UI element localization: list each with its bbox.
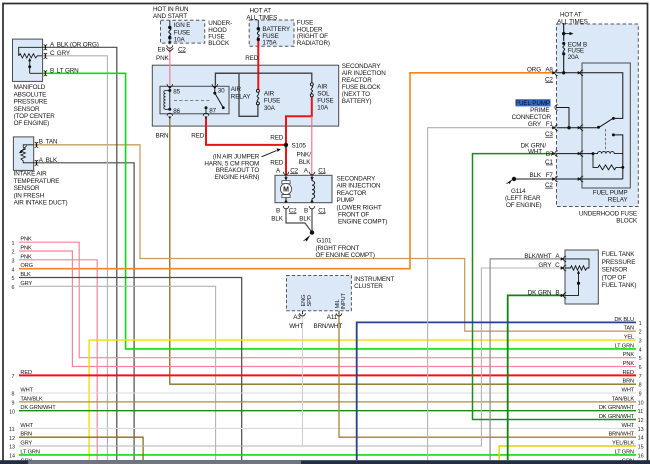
map sensor internals	[19, 47, 43, 56]
svg-text:RED: RED	[20, 370, 32, 376]
underhood fuse block right (dashed, fuel pump relay)	[557, 24, 639, 207]
svg-text:16: 16	[638, 453, 644, 459]
connector arc relay pin 30	[212, 84, 218, 87]
svg-text:12: 12	[638, 418, 644, 424]
svg-text:LT GRN: LT GRN	[20, 449, 39, 455]
wire RED row7	[19, 374, 636, 376]
svg-text:BRN/WHT: BRN/WHT	[609, 432, 635, 438]
svg-text:14: 14	[9, 453, 15, 459]
svg-text:5: 5	[12, 276, 15, 282]
svg-text:RED: RED	[191, 132, 205, 139]
relay mechanical link dashed	[174, 99, 210, 101]
svg-text:PNK: PNK	[20, 237, 32, 243]
pump motor symbol	[285, 175, 287, 181]
connector arcs ftp pins	[563, 256, 566, 298]
svg-text:RED: RED	[245, 55, 259, 62]
svg-text:WHT: WHT	[622, 423, 635, 429]
pump solenoid coil symbol	[311, 175, 313, 181]
svg-text:M: M	[283, 186, 289, 193]
svg-text:B: B	[276, 208, 280, 215]
svg-text:1: 1	[639, 321, 642, 327]
svg-text:YEL: YEL	[624, 335, 634, 341]
svg-text:14: 14	[638, 436, 644, 442]
wire BLK pump solenoid B to G101	[311, 209, 313, 232]
node relay pin 87	[205, 106, 208, 109]
svg-text:LT GRN: LT GRN	[615, 343, 634, 349]
connector arc relay pin 87	[203, 113, 209, 116]
secondary air injection reactor pump box	[275, 175, 332, 202]
svg-text:ALL TIMES: ALL TIMES	[557, 18, 588, 25]
svg-text:GRY: GRY	[538, 262, 552, 269]
svg-text:BRN: BRN	[20, 432, 32, 438]
svg-text:3: 3	[12, 258, 15, 264]
svg-text:SOL: SOL	[317, 91, 330, 98]
wire BRN/WHT cluster A11 to row 14	[339, 314, 636, 437]
svg-text:30A: 30A	[264, 105, 276, 112]
connector arc relay pin 85	[167, 84, 173, 87]
svg-text:MANIFOLD: MANIFOLD	[14, 84, 46, 91]
connector arrowheads fuel block pins	[552, 71, 581, 181]
svg-text:(LOWER RIGHT: (LOWER RIGHT	[337, 204, 382, 211]
svg-text:GRY: GRY	[20, 441, 32, 447]
svg-text:ENGINE HARN): ENGINE HARN)	[215, 174, 259, 181]
svg-text:10: 10	[638, 400, 644, 406]
svg-text:BLOCK: BLOCK	[208, 40, 230, 47]
fuse ECM B 20A	[562, 42, 565, 45]
svg-text:ABSOLUTE: ABSOLUTE	[14, 91, 47, 98]
svg-text:7: 7	[12, 374, 15, 380]
svg-text:(TOP CENTER: (TOP CENTER	[14, 113, 56, 120]
svg-text:SECONDARY: SECONDARY	[342, 63, 382, 70]
svg-text:C: C	[555, 262, 560, 269]
svg-text:B: B	[50, 67, 54, 74]
fuel tank pressure sensor box	[565, 250, 598, 304]
svg-text:CLUSTER: CLUSTER	[354, 283, 383, 290]
wire LT GRN row16	[19, 454, 636, 456]
svg-text:FUEL TANK: FUEL TANK	[602, 251, 636, 258]
svg-text:RADIATOR): RADIATOR)	[297, 40, 330, 47]
svg-text:12: 12	[9, 436, 15, 442]
wire YEL/BLK row15 right	[499, 446, 636, 460]
wire ORG row4 left to fuel pump relay A8	[19, 73, 554, 269]
svg-text:AIR INJECTION: AIR INJECTION	[342, 70, 386, 77]
node relay pin 85	[168, 89, 171, 92]
svg-text:TAN: TAN	[623, 326, 634, 332]
relay switch arm 30 to 87	[215, 93, 223, 107]
svg-text:86: 86	[173, 108, 180, 115]
svg-text:OF ENGINE COMPT): OF ENGINE COMPT)	[316, 252, 375, 259]
svg-text:REACTOR: REACTOR	[337, 190, 367, 197]
fuse AIR SOL 10A	[310, 83, 313, 97]
svg-text:HOT AT: HOT AT	[250, 7, 272, 14]
connector arcs fuel block left edge	[555, 70, 583, 182]
svg-text:FUEL TANK): FUEL TANK)	[602, 282, 637, 289]
svg-text:INPUT: INPUT	[341, 293, 347, 310]
wire PNK row1 left to row 5	[19, 242, 636, 358]
svg-text:5: 5	[639, 356, 642, 362]
svg-text:BLK (OR ORG): BLK (OR ORG)	[57, 41, 99, 48]
svg-text:B: B	[304, 208, 308, 215]
wire RED air sol fuse jog down-left exits box	[286, 97, 312, 145]
svg-text:FUSE: FUSE	[174, 29, 190, 36]
svg-text:8: 8	[12, 392, 15, 398]
svg-text:9: 9	[12, 401, 15, 407]
node S105	[284, 143, 288, 147]
instrument cluster pin stubs	[302, 311, 304, 314]
svg-text:13: 13	[9, 445, 15, 451]
wire PNK row3 left down	[19, 260, 97, 460]
svg-text:RED: RED	[270, 160, 284, 167]
air relay inner box	[160, 86, 229, 114]
wire BLK pump motor B to G101	[286, 209, 312, 232]
svg-text:TAN/BLK: TAN/BLK	[20, 396, 43, 402]
svg-text:E8: E8	[158, 46, 166, 53]
svg-text:DK GRN/WHT: DK GRN/WHT	[20, 405, 56, 411]
svg-text:ORG: ORG	[527, 66, 541, 73]
relay coil spring	[164, 91, 170, 110]
svg-text:PNK: PNK	[20, 246, 32, 252]
svg-text:PRIME: PRIME	[530, 107, 549, 114]
F1 line into relay	[557, 127, 599, 129]
svg-text:OF ENGINE): OF ENGINE)	[14, 120, 50, 127]
svg-text:A8: A8	[545, 66, 553, 73]
svg-text:G101: G101	[317, 238, 333, 245]
feed line A8 into relay	[557, 73, 623, 119]
ground G114	[512, 177, 516, 181]
wire BLK air fuse out jog to relay 30 and sol fuse	[215, 73, 258, 116]
fuse AIR 30A	[256, 89, 259, 105]
svg-text:A3: A3	[293, 314, 301, 321]
fuel pump relay inner box	[582, 63, 630, 188]
svg-text:30: 30	[218, 88, 225, 95]
svg-text:BLK/WHT: BLK/WHT	[524, 253, 551, 260]
svg-text:BLK: BLK	[299, 159, 311, 166]
svg-text:WHT: WHT	[20, 423, 33, 429]
svg-text:87: 87	[209, 108, 216, 115]
wire BRN relay 86 down to row 8	[170, 118, 636, 385]
svg-text:175A: 175A	[262, 40, 277, 47]
svg-text:WHT: WHT	[528, 149, 542, 156]
svg-text:BRN: BRN	[622, 379, 634, 385]
wire PNK ign fuse to relay 85	[169, 48, 171, 86]
svg-text:6: 6	[12, 285, 15, 291]
svg-text:GRY: GRY	[528, 121, 542, 128]
svg-text:G114: G114	[511, 188, 526, 195]
svg-text:11: 11	[638, 409, 644, 415]
svg-text:PNK/: PNK/	[297, 152, 312, 159]
svg-text:8: 8	[639, 383, 642, 389]
svg-text:ALL TIMES: ALL TIMES	[246, 14, 277, 21]
wire ECM B fuse feed from hot	[563, 24, 565, 41]
svg-text:PNK: PNK	[623, 361, 635, 367]
prime connector stub	[557, 108, 570, 128]
svg-text:2: 2	[639, 330, 642, 336]
coil upper branch inductor	[593, 152, 623, 154]
svg-text:CONNECTOR: CONNECTOR	[512, 114, 552, 121]
svg-text:(IN FRESH: (IN FRESH	[14, 192, 45, 199]
svg-text:(LEFT REAR: (LEFT REAR	[505, 195, 541, 202]
wire BRN row12 left down	[19, 437, 143, 460]
svg-text:PNK: PNK	[20, 254, 32, 260]
svg-text:SENSOR: SENSOR	[14, 185, 40, 192]
relay mech link dashed	[605, 129, 607, 152]
svg-text:BLK: BLK	[529, 172, 541, 179]
node splice on ECM B feed with arrow to other circuits	[562, 32, 565, 35]
svg-text:13: 13	[638, 427, 644, 433]
svg-text:AIR: AIR	[264, 91, 275, 98]
svg-text:(TOP OF: (TOP OF	[602, 274, 627, 281]
svg-text:INSTRUMENT: INSTRUMENT	[354, 276, 394, 283]
wire BLK row5 left down	[19, 278, 242, 461]
svg-text:RED: RED	[270, 134, 284, 141]
wire YEL row3	[89, 340, 636, 460]
svg-text:RELAY: RELAY	[608, 196, 629, 203]
wire BLK (OR ORG) map A down	[43, 47, 117, 460]
svg-text:BLK: BLK	[299, 215, 311, 222]
svg-text:A11: A11	[327, 314, 338, 321]
fuse IGN E 10A	[169, 20, 171, 27]
wire DK GRN/WHT fuel pump relay B7 to row12	[473, 154, 637, 420]
svg-text:RED: RED	[622, 370, 634, 376]
svg-text:TEMPERATURE: TEMPERATURE	[14, 178, 60, 185]
svg-text:(NEXT TO: (NEXT TO	[342, 91, 370, 98]
svg-text:1: 1	[12, 241, 15, 247]
svg-text:DK GRN/WHT: DK GRN/WHT	[599, 405, 635, 411]
svg-text:ORG: ORG	[20, 263, 33, 269]
wire TAN iat B to row 2	[34, 145, 636, 331]
svg-text:BLK: BLK	[46, 157, 58, 164]
svg-text:10A: 10A	[174, 37, 186, 44]
svg-text:ENGINE COMPT): ENGINE COMPT)	[338, 219, 387, 226]
svg-text:IGN E: IGN E	[174, 22, 191, 29]
svg-text:10A: 10A	[317, 105, 329, 112]
svg-text:F1: F1	[546, 121, 554, 128]
svg-text:4: 4	[639, 347, 642, 353]
svg-text:20A: 20A	[568, 54, 580, 61]
wire WHT cluster A3 down	[302, 314, 304, 446]
svg-text:ENG: ENG	[301, 295, 307, 307]
svg-text:LT GRN: LT GRN	[57, 67, 79, 74]
svg-text:BLK: BLK	[20, 272, 31, 278]
svg-text:11: 11	[9, 427, 15, 433]
svg-text:9: 9	[639, 392, 642, 398]
wire DK BLU row1	[357, 322, 636, 460]
svg-text:B7: B7	[546, 151, 554, 158]
wire BLK/WHT ftp A down	[490, 259, 565, 460]
svg-text:15: 15	[638, 445, 644, 451]
wire PNK/BLK sol fuse to pump solenoid C1	[311, 116, 313, 174]
svg-text:AND START: AND START	[153, 13, 187, 20]
iat sensor internals (thermistor)	[21, 145, 34, 163]
wire GRY ftp C to row15 left	[19, 268, 565, 446]
F7 line into relay	[557, 178, 623, 180]
svg-text:DK GRN: DK GRN	[528, 289, 552, 296]
svg-text:SENSOR: SENSOR	[602, 267, 628, 274]
svg-text:BATTERY): BATTERY)	[342, 98, 372, 105]
svg-text:BRN/WHT: BRN/WHT	[314, 323, 343, 330]
wire BLK feed to air sol fuse	[215, 73, 311, 83]
svg-text:F7: F7	[546, 172, 554, 179]
label fuel pump prime connector (highlighted)	[516, 99, 551, 106]
connector E8/C2 below ign fuse	[167, 45, 173, 48]
wire GRY to fuel pump relay F1	[428, 128, 554, 460]
svg-text:85: 85	[173, 89, 180, 96]
svg-text:PRESSURE: PRESSURE	[14, 99, 48, 106]
svg-text:WHT: WHT	[622, 388, 635, 394]
svg-text:6: 6	[639, 365, 642, 371]
svg-text:PUMP: PUMP	[337, 197, 355, 204]
svg-text:AIR INTAKE DUCT): AIR INTAKE DUCT)	[14, 200, 68, 207]
svg-text:TAN: TAN	[46, 139, 58, 146]
battery fuse holder (dashed)	[249, 20, 294, 46]
svg-text:OF ENGINE): OF ENGINE)	[506, 202, 542, 209]
coil lower branch resistor	[593, 154, 623, 170]
svg-text:HOT IN RUN: HOT IN RUN	[153, 6, 189, 13]
svg-text:3: 3	[639, 339, 642, 345]
svg-text:DK GRN/WHT: DK GRN/WHT	[599, 414, 635, 420]
wire BLK G114 to fuel pump relay F7	[514, 178, 554, 180]
svg-text:7: 7	[639, 374, 642, 380]
connector arcs iat pins	[35, 142, 39, 165]
svg-text:BLOCK: BLOCK	[616, 217, 638, 224]
wire BLK iat A down	[34, 163, 134, 460]
wire GRY map C down	[43, 56, 108, 460]
svg-text:AIR: AIR	[231, 86, 242, 93]
svg-text:GRY: GRY	[20, 281, 32, 287]
svg-text:PRESSURE: PRESSURE	[602, 259, 636, 266]
svg-text:YEL/BLK: YEL/BLK	[612, 441, 634, 447]
connector arc relay pin 86	[167, 113, 173, 116]
wire RED relay 87 to S105	[206, 118, 286, 145]
svg-text:2: 2	[12, 250, 15, 256]
ground G101	[310, 230, 314, 234]
svg-text:PNK: PNK	[156, 55, 170, 62]
svg-text:FUSE BLOCK: FUSE BLOCK	[342, 84, 382, 91]
svg-text:BRN: BRN	[156, 132, 170, 139]
svg-text:FUSE: FUSE	[317, 98, 333, 105]
svg-text:C: C	[50, 50, 55, 57]
secondary air injection reactor fuse block box	[152, 65, 338, 126]
svg-text:WHT: WHT	[289, 323, 303, 330]
connector arcs pump top pins	[283, 172, 289, 175]
svg-text:SECONDARY: SECONDARY	[337, 176, 377, 183]
wire RED S105 to pump motor A	[285, 145, 287, 175]
svg-text:DK BLU: DK BLU	[614, 317, 634, 323]
node relay pin 86	[168, 108, 171, 111]
connector arcs pump bottom pins	[283, 206, 289, 209]
wire PNK row2 left to row 6	[19, 251, 636, 367]
wire LT GRN map B to row 4	[43, 73, 636, 349]
wire DK GRN ftp B down	[508, 295, 565, 460]
bottom bar	[0, 460, 650, 464]
node relay pin 30	[213, 92, 216, 95]
wire WHT row13	[19, 427, 636, 429]
svg-text:BLK: BLK	[271, 215, 283, 222]
svg-text:S105: S105	[292, 142, 307, 149]
svg-text:MIL: MIL	[335, 299, 341, 308]
svg-text:INTAKE AIR: INTAKE AIR	[14, 171, 48, 178]
svg-text:REACTOR: REACTOR	[342, 77, 372, 84]
wire WHT row9	[19, 392, 636, 394]
svg-text:B: B	[39, 139, 43, 146]
svg-text:4: 4	[12, 267, 15, 273]
svg-text:PNK: PNK	[623, 352, 635, 358]
jumper harness note arrow	[262, 151, 277, 157]
svg-text:B: B	[555, 289, 559, 296]
wire RED battery fuse to air fuse	[257, 39, 259, 90]
svg-text:SPD: SPD	[307, 295, 313, 306]
svg-text:TAN/BLK: TAN/BLK	[612, 396, 635, 402]
instrument cluster box (dashed)	[287, 276, 352, 311]
intake air temperature sensor box	[13, 137, 33, 171]
svg-text:WHT: WHT	[20, 388, 33, 394]
svg-text:RELAY: RELAY	[231, 93, 252, 100]
underhood fuse block (IGN E fuse holder, dashed)	[161, 20, 205, 43]
svg-text:AIR INJECTION: AIR INJECTION	[337, 183, 381, 190]
fuel tank pressure sensor internals	[565, 259, 589, 266]
svg-text:(RIGHT FRONT: (RIGHT FRONT	[316, 245, 360, 252]
wire TAN/BLK row10	[19, 401, 636, 403]
B7 line into relay coil	[557, 153, 594, 155]
relay switch arm	[599, 119, 613, 128]
svg-text:SENSOR: SENSOR	[14, 106, 40, 113]
svg-text:FUSE: FUSE	[264, 98, 280, 105]
svg-text:FUEL PUMP: FUEL PUMP	[515, 100, 550, 107]
fuse BATTERY 175A	[257, 20, 259, 29]
manifold absolute pressure sensor box	[13, 39, 43, 81]
svg-text:LT GRN: LT GRN	[615, 449, 634, 455]
wire GRY row6 left down	[19, 286, 216, 460]
svg-text:FRONT OF: FRONT OF	[338, 212, 369, 219]
svg-text:GRY: GRY	[57, 50, 71, 57]
wire DK GRN/WHT row11	[19, 410, 636, 412]
connector arcs map pins	[44, 45, 48, 76]
svg-text:10: 10	[9, 409, 15, 415]
svg-text:AIR: AIR	[317, 84, 328, 91]
